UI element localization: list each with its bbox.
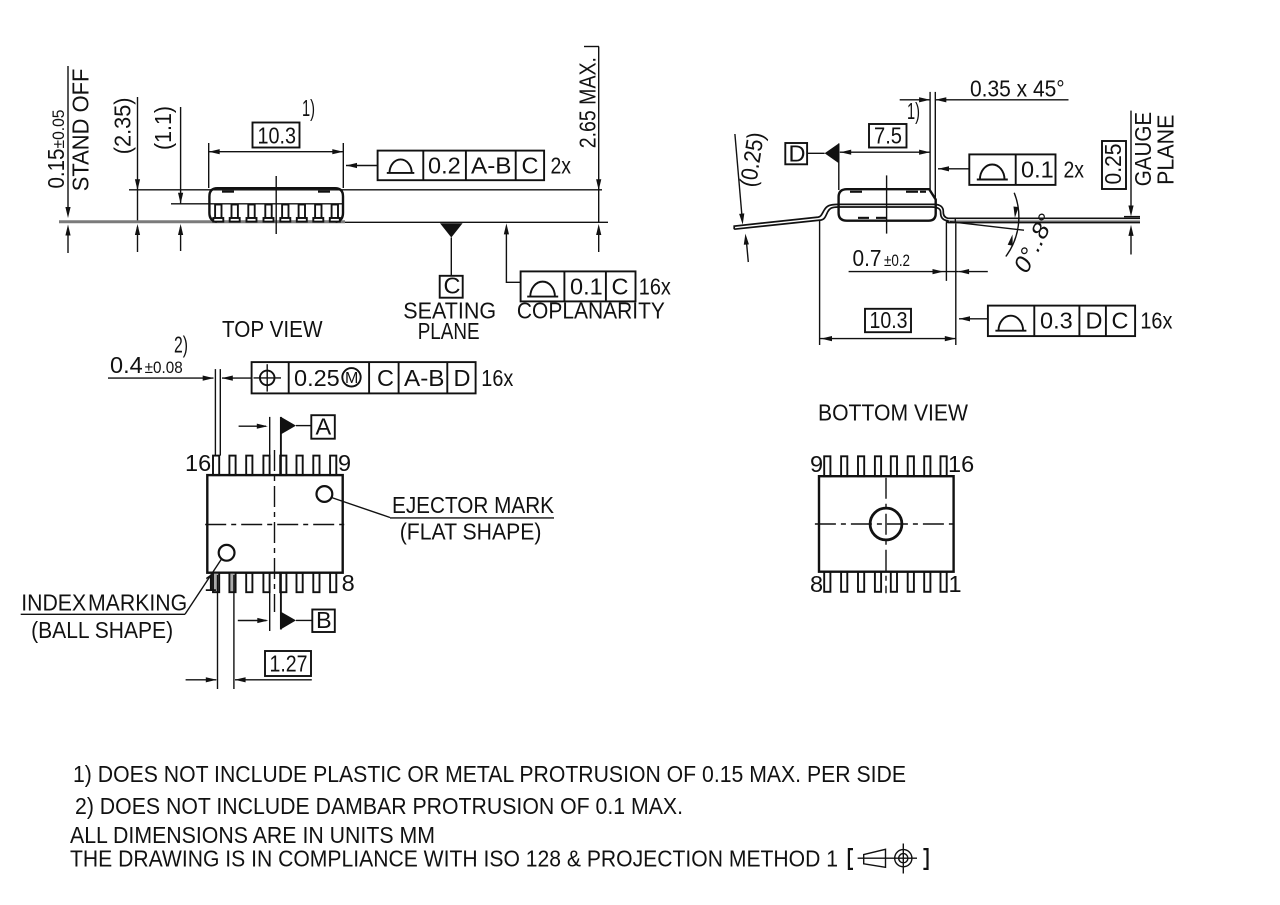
datum D box: [785, 143, 807, 164]
svg-text:16x: 16x: [481, 365, 513, 391]
svg-text:COPLANARITY: COPLANARITY: [517, 298, 665, 324]
top of body line: [129, 189, 602, 191]
center line of body: [275, 176, 277, 234]
svg-text:TOP VIEW: TOP VIEW: [222, 316, 323, 342]
svg-text:B: B: [316, 607, 332, 633]
svg-text:0.25: 0.25: [1100, 144, 1126, 185]
FCF coplanarity 0.1 C: [504, 223, 671, 323]
svg-text:1): 1): [907, 98, 920, 124]
angle arc 0..8 deg: [1006, 193, 1019, 257]
svg-text:PLANE: PLANE: [418, 318, 480, 344]
svg-text:9: 9: [810, 451, 823, 477]
gull-wing lead through body: [734, 204, 1140, 229]
svg-text:7.5: 7.5: [874, 123, 902, 149]
0.4 extension lines: [214, 369, 216, 456]
svg-text:A-B: A-B: [471, 153, 512, 179]
leads side view: [213, 205, 339, 222]
svg-text:BOTTOM VIEW: BOTTOM VIEW: [818, 400, 969, 426]
section arrow B: [238, 607, 335, 633]
pins bottom row bottom view: [824, 572, 947, 592]
svg-text:1: 1: [949, 571, 962, 597]
dimension 7.5 box: [869, 124, 907, 148]
FCF position 0.25 M C A-B D: [252, 362, 514, 393]
10.3 extension line left: [819, 221, 821, 345]
svg-text:ALL DIMENSIONS ARE IN UNITS MM: ALL DIMENSIONS ARE IN UNITS MM: [70, 822, 435, 848]
svg-text:PLANE: PLANE: [1153, 115, 1179, 185]
dimension line 0.15 stand off: [67, 66, 69, 210]
svg-text:C: C: [377, 365, 394, 391]
dimension 10.3 box end view: [865, 309, 911, 332]
bottom of body line: [171, 203, 343, 205]
ejector mark circle: [317, 486, 333, 502]
leader arrows (0.25): [735, 134, 742, 217]
datum D triangle: [825, 143, 839, 163]
center lines bottom view: [815, 523, 957, 525]
FCF profile 0.1 2x: [938, 154, 1084, 185]
chamfer extension lines: [929, 92, 931, 191]
index marking circle: [219, 545, 235, 561]
svg-text:16: 16: [948, 451, 974, 477]
leader index marking: [185, 559, 222, 614]
svg-text:0.25: 0.25: [294, 365, 340, 391]
svg-text:INDEX MARKING: INDEX MARKING: [21, 590, 187, 616]
svg-text:(BALL SHAPE): (BALL SHAPE): [31, 617, 173, 643]
svg-text:M: M: [345, 370, 358, 387]
svg-text:0.2: 0.2: [428, 153, 461, 179]
svg-text:0.3: 0.3: [1040, 308, 1073, 334]
svg-text:16x: 16x: [1140, 308, 1172, 334]
svg-text:D: D: [789, 141, 806, 167]
pins top row bottom view: [824, 456, 947, 476]
dimension line 7.5: [840, 151, 930, 153]
pins bottom row top view: [213, 573, 336, 593]
svg-text:C: C: [444, 273, 461, 299]
FCF profile 0.2 A-B C: [346, 151, 571, 181]
svg-text:2.65 MAX.: 2.65 MAX.: [575, 57, 601, 148]
1.27 extension lines through pins 1,2: [217, 575, 219, 689]
svg-text:0.35 x 45°: 0.35 x 45°: [970, 76, 1065, 102]
dimension line 0.35 x 45: [900, 99, 930, 101]
svg-text:1) DOES NOT INCLUDE PLASTIC OR: 1) DOES NOT INCLUDE PLASTIC OR METAL PRO…: [73, 761, 906, 787]
label gauge plane boxed 0.25: [1102, 141, 1126, 189]
svg-text:1): 1): [302, 95, 315, 121]
7.5 extension line left: [838, 143, 840, 190]
seating plane line gray: [59, 220, 345, 223]
svg-text:16x: 16x: [639, 274, 671, 300]
body mold marks end view: [850, 191, 862, 193]
lead heel mark: [946, 220, 949, 223]
svg-text:16: 16: [185, 450, 211, 476]
svg-text:2x: 2x: [1064, 157, 1085, 183]
svg-text:THE DRAWING IS IN COMPLIANCE W: THE DRAWING IS IN COMPLIANCE WITH ISO 12…: [70, 846, 838, 872]
svg-text:A: A: [316, 414, 332, 440]
section arrow A: [239, 414, 335, 476]
svg-text:9: 9: [338, 450, 351, 476]
svg-text:2x: 2x: [551, 153, 572, 179]
svg-text:(FLAT SHAPE): (FLAT SHAPE): [400, 519, 542, 545]
package body bottom view: [819, 476, 954, 572]
svg-text:EJECTOR MARK: EJECTOR MARK: [392, 492, 554, 518]
svg-text:C: C: [612, 274, 629, 300]
svg-text:C: C: [522, 153, 539, 179]
svg-text:10.3: 10.3: [258, 123, 297, 149]
leader ejector mark: [332, 498, 391, 518]
dimension 10.3 box: [253, 123, 300, 148]
projection method symbol cone: [858, 844, 917, 874]
center lines top view: [205, 524, 346, 526]
package body side view: [209, 188, 343, 222]
seating plane datum C: [403, 223, 496, 344]
dimension line (1.1): [180, 107, 182, 204]
dimension line (2.35): [137, 97, 139, 222]
dimension line 1.27: [186, 679, 217, 681]
body mold marks: [222, 191, 234, 193]
0.7 extension lines: [945, 223, 947, 281]
svg-text:(2.35): (2.35): [110, 98, 136, 155]
svg-text:STAND OFF: STAND OFF: [68, 69, 94, 192]
dimension line 10.3: [208, 143, 210, 188]
lead tip edge: [954, 219, 956, 223]
svg-text:2): 2): [174, 332, 188, 358]
svg-text:0.1: 0.1: [570, 274, 603, 300]
svg-text:1.27: 1.27: [270, 651, 308, 677]
dimension 1.27 box: [265, 651, 311, 676]
package body end view: [839, 189, 936, 221]
dimension line 0.25 gauge plane: [1130, 111, 1132, 212]
dimension line 10.3 end view: [820, 338, 956, 340]
body center line end view: [886, 175, 888, 233]
svg-text:C: C: [1112, 308, 1129, 334]
svg-text:0.1: 0.1: [1021, 157, 1054, 183]
svg-text:D: D: [1086, 308, 1103, 334]
package body top view: [207, 475, 342, 573]
svg-text:(1.1): (1.1): [150, 106, 176, 150]
svg-text:8: 8: [342, 570, 355, 596]
svg-text:D: D: [454, 365, 471, 391]
svg-text:8: 8: [810, 571, 823, 597]
svg-text:10.3: 10.3: [870, 307, 908, 333]
ejector pin circle bottom view: [870, 508, 902, 540]
dimension line 2.65 MAX.: [584, 46, 599, 48]
pins top row top view: [213, 456, 336, 476]
section line B verticals: [269, 573, 271, 631]
svg-text:2) DOES NOT INCLUDE DAMBAR PRO: 2) DOES NOT INCLUDE DAMBAR PROTRUSION OF…: [75, 793, 683, 819]
8 degree reference line: [950, 222, 1024, 231]
FCF profile 0.3 D C 16x: [959, 306, 1173, 337]
svg-text:A-B: A-B: [404, 365, 445, 391]
